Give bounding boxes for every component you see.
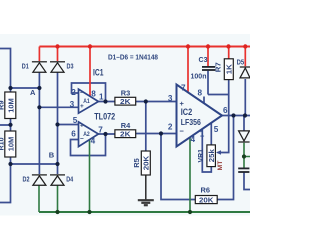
svg-text:3: 3 [70, 100, 75, 109]
svg-text:6: 6 [71, 129, 76, 138]
node dots green [55, 154, 246, 214]
resistor R7 [224, 59, 233, 80]
wire pin2 down to R6 [161, 134, 195, 200]
wire feedback loop A2 [71, 134, 106, 156]
wire node B horizontal [11, 163, 58, 165]
svg-text:D5: D5 [237, 58, 245, 67]
resistor R4 [115, 130, 136, 138]
svg-text:1: 1 [200, 130, 205, 139]
svg-text:10M: 10M [6, 98, 15, 113]
rotated reference labels [0, 62, 224, 170]
svg-text:−: − [80, 90, 84, 97]
svg-text:7: 7 [181, 83, 186, 92]
svg-text:2K: 2K [120, 130, 131, 139]
ground symbol [138, 175, 154, 205]
resistor R9 [5, 92, 16, 119]
svg-text:D3: D3 [67, 62, 74, 71]
wire D5-D6 column [244, 79, 245, 131]
svg-text:R5: R5 [132, 158, 141, 168]
op-amp IC2 [177, 85, 223, 147]
diode D1 [32, 62, 47, 72]
wiper arrowhead [216, 150, 221, 155]
opamp internal labels [83, 98, 90, 138]
wire R6 to output feedback [217, 116, 233, 200]
svg-text:D2: D2 [23, 175, 30, 184]
wire green IC2 pin4 to rail [189, 137, 191, 212]
wire node A horizontal [11, 87, 40, 89]
wire C3 bottom and pin8 stub [204, 71, 229, 103]
svg-text:2: 2 [168, 122, 173, 131]
svg-text:R10: R10 [0, 138, 6, 151]
svg-text:6: 6 [223, 106, 228, 115]
svg-text:1K: 1K [225, 64, 234, 75]
svg-text:4: 4 [91, 136, 96, 145]
svg-text:−: − [180, 126, 185, 135]
svg-text:+: + [80, 122, 84, 129]
pin numbers [70, 83, 228, 145]
svg-text:TL072: TL072 [94, 111, 115, 121]
svg-text:8: 8 [91, 90, 96, 99]
wire green A2 pin4 to rail [89, 139, 91, 212]
svg-text:20K: 20K [199, 196, 214, 205]
svg-text:+: + [180, 99, 185, 108]
wire red to D1 [38, 47, 40, 62]
svg-text:7: 7 [98, 125, 103, 134]
wire R7 down to wiper [218, 80, 229, 153]
wire IC2 output [221, 115, 250, 117]
svg-text:3: 3 [168, 94, 173, 103]
svg-text:10M: 10M [6, 137, 15, 152]
wire red to D3 [57, 47, 59, 62]
svg-text:A1: A1 [83, 98, 90, 105]
svg-text:2K: 2K [120, 97, 131, 106]
wire between R9 and R10 [0, 119, 11, 132]
svg-text:8: 8 [198, 89, 203, 98]
wire red to R7 [228, 47, 230, 59]
resistor R3 [115, 97, 136, 105]
capacitor C3 [202, 67, 215, 70]
resistor R10 [5, 131, 16, 157]
potentiometer VR1 [207, 145, 216, 167]
wire pin5 to VR1 [210, 123, 212, 145]
node dots navy [8, 86, 247, 166]
svg-text:B: B [49, 150, 55, 159]
wire R4 to pin2 IC2 [136, 133, 177, 135]
capacitor C4 [238, 168, 249, 172]
wire green D6 to C4 and right exit [244, 143, 250, 168]
wire below R10 to left exit [0, 157, 11, 203]
svg-text:IC1: IC1 [93, 68, 104, 78]
svg-text:5: 5 [73, 116, 78, 125]
wire green D2 to rail [38, 186, 40, 213]
opamp +/- marks [80, 90, 185, 143]
svg-text:A: A [30, 88, 36, 97]
svg-text:MT: MT [217, 160, 224, 171]
svg-text:100n: 100n [191, 72, 207, 81]
svg-text:R7: R7 [213, 62, 222, 72]
diode D5 [240, 67, 250, 78]
diode D2 [32, 175, 47, 185]
svg-text:4: 4 [191, 135, 196, 144]
svg-text:25k: 25k [207, 148, 216, 162]
wire red to C3 [207, 47, 209, 67]
svg-text:2: 2 [71, 88, 76, 97]
wire A2 output to R4 [98, 133, 115, 135]
svg-text:D1: D1 [22, 62, 29, 71]
wire C4 bottom exit [244, 173, 250, 190]
svg-text:D1–D6 = 1N4148: D1–D6 = 1N4148 [108, 52, 158, 61]
wire D3-D4 column [57, 72, 59, 174]
wire feedback loop A1 [72, 83, 106, 102]
diode D3 [50, 62, 65, 72]
svg-text:20K: 20K [142, 155, 151, 170]
values inside resistors [6, 64, 233, 205]
wire red +V rail [39, 46, 250, 48]
resistor R5 [141, 151, 150, 175]
op-amp A2 (IC1b) [79, 122, 99, 147]
wire node to R5 [145, 102, 147, 152]
wire green D4 to rail [57, 186, 59, 213]
wire red to D5 [244, 47, 246, 67]
svg-text:R9: R9 [0, 100, 6, 110]
wire to pin3 A1 [39, 106, 78, 108]
svg-text:1: 1 [99, 92, 104, 101]
wire to pin5 A2 [58, 124, 79, 126]
svg-text:C3: C3 [199, 55, 208, 64]
wire pin1 to VR1 bottom [202, 129, 211, 172]
wire red to IC2 pin7 [187, 47, 189, 93]
wire R3 to pin3 IC2 [136, 101, 177, 103]
wire red to IC1 pin8 [89, 47, 91, 97]
resistor R6 [195, 196, 217, 204]
svg-text:R6: R6 [201, 186, 211, 195]
diode D6 [238, 131, 249, 142]
op-amp A1 (IC1a) [79, 89, 99, 113]
diode D4 [50, 175, 65, 185]
svg-text:VR1: VR1 [196, 149, 205, 163]
wire green 0V rail [39, 211, 250, 213]
wire input left at top [0, 49, 11, 93]
node dots red [55, 44, 247, 48]
svg-text:A2: A2 [83, 131, 90, 138]
svg-text:5: 5 [214, 125, 219, 134]
svg-text:IC2: IC2 [181, 107, 193, 117]
wire A1 output to R3 [98, 101, 115, 103]
wire D1-D2 column [38, 72, 40, 174]
svg-text:D4: D4 [66, 175, 74, 184]
